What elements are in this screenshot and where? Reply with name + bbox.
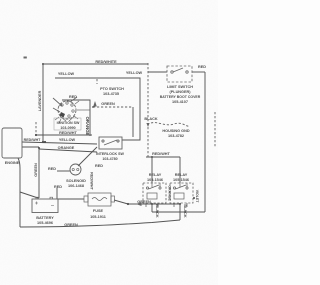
svg-text:106-1468: 106-1468 [68,184,84,188]
svg-text:LIMIT SWITCH: LIMIT SWITCH [167,85,193,89]
svg-text:ORANGE: ORANGE [85,117,90,136]
svg-text:ORANGE: ORANGE [168,185,172,201]
svg-text:RED/WHT: RED/WHT [24,138,42,142]
svg-text:VIOLET: VIOLET [195,190,199,204]
svg-text:105-4696: 105-4696 [37,221,53,225]
svg-text:BLACK: BLACK [144,117,158,121]
svg-text:ORANGE: ORANGE [58,146,75,150]
svg-text:YELLOW: YELLOW [58,72,75,76]
svg-text:INTERLOCK SW: INTERLOCK SW [96,152,124,156]
svg-text:(PLUNGER): (PLUNGER) [169,90,191,94]
svg-text:RED/WHITE: RED/WHITE [95,60,117,64]
svg-text:RELAY: RELAY [175,173,188,177]
svg-text:105-1546: 105-1546 [173,178,189,182]
svg-text:PTO SWITCH: PTO SWITCH [100,87,124,91]
svg-text:BATTERY BOOT COVER: BATTERY BOOT COVER [160,95,201,99]
svg-text:YELLOW: YELLOW [59,138,76,142]
svg-text:LAVENDER: LAVENDER [38,90,42,111]
svg-text:IGNITION SW: IGNITION SW [57,121,80,125]
svg-text:RELAY: RELAY [149,173,162,177]
svg-text:103-0990: 103-0990 [60,126,75,130]
svg-text:RED: RED [69,95,77,99]
svg-text:BLACK: BLACK [155,204,159,218]
svg-text:RED: RED [48,167,56,171]
svg-text:105-4107: 105-4107 [172,100,188,104]
svg-text:GREEN: GREEN [34,163,38,177]
svg-text:103-4782: 103-4782 [168,134,184,138]
svg-text:RED: RED [198,65,206,69]
svg-text:GREEN: GREEN [64,223,78,227]
svg-text:BLACK: BLACK [183,204,187,218]
svg-text:RED/WHT: RED/WHT [152,152,170,156]
svg-text:HOUSING GND: HOUSING GND [162,129,189,133]
svg-text:BATTERY: BATTERY [36,216,54,220]
svg-text:RED/WHT: RED/WHT [90,172,94,190]
svg-text:YELLOW: YELLOW [126,71,143,75]
svg-text:103-4735: 103-4735 [103,92,119,96]
svg-text:ENGINE: ENGINE [5,161,20,165]
svg-text:105-1546: 105-1546 [147,178,163,182]
svg-text:GREEN: GREEN [101,102,115,106]
svg-text:RED: RED [54,185,62,189]
svg-text:FUSE: FUSE [93,209,104,213]
svg-text:103-4780: 103-4780 [102,157,117,161]
svg-text:105-1911: 105-1911 [90,215,106,219]
svg-text:GREEN: GREEN [137,200,151,204]
svg-text:SOLENOID: SOLENOID [66,179,86,183]
svg-text:RED/WHT: RED/WHT [59,131,77,135]
svg-text:RED: RED [95,164,103,168]
